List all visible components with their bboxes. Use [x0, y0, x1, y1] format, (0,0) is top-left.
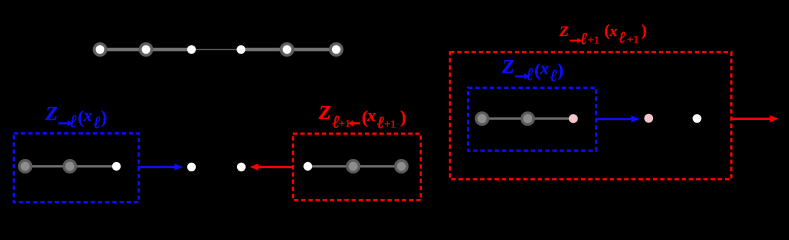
top node 5: [281, 44, 293, 56]
top chain thin wire 3-4: [192, 49, 242, 51]
label Z_{->l}(x_l) bottom-left blue: [45, 103, 108, 132]
top node 4: [237, 45, 246, 54]
left chain gray node 2: [64, 160, 76, 172]
blue arrow right fig: [597, 116, 641, 123]
top node 1: [94, 44, 106, 56]
blue dashed box (inner right): [468, 88, 596, 151]
wire mid chain 2-3: [353, 165, 401, 167]
svg-text:+1: +1: [588, 35, 600, 47]
top node 3: [187, 45, 196, 54]
top node 6: [330, 44, 342, 56]
svg-text:x: x: [366, 106, 376, 125]
svg-text:x: x: [83, 106, 93, 125]
free pink node: [644, 114, 653, 123]
red arrow right fig: [731, 115, 778, 122]
red dashed box (bottom middle): [293, 134, 421, 201]
top chain wire 5-6: [287, 48, 336, 52]
svg-text:ℓ: ℓ: [377, 113, 384, 132]
wire mid chain 1-2: [308, 165, 353, 167]
blue arrow: [138, 164, 183, 171]
right chain gray node 2: [522, 113, 534, 125]
right chain pink node: [569, 114, 578, 123]
left chain gray node 1: [19, 160, 31, 172]
wire left chain 1-2: [25, 165, 70, 167]
mid chain white node: [303, 162, 312, 171]
wire left chain 2-3: [70, 165, 117, 167]
red arrow (pointing left): [250, 164, 293, 171]
svg-text:ℓ: ℓ: [618, 30, 626, 47]
top chain wire 4-5: [241, 48, 287, 52]
svg-text:x: x: [609, 24, 618, 40]
mid chain gray node 2: [347, 160, 359, 172]
label Z_{->l+1}(x_{l+1}) top right red: [559, 23, 647, 49]
free node x_l: [187, 163, 196, 172]
svg-text:ℓ: ℓ: [70, 111, 77, 131]
free white node: [693, 114, 702, 123]
svg-text:Z: Z: [45, 103, 58, 125]
label Z_{->l}(x_l) inner blue: [501, 56, 563, 85]
wire right chain 1-2: [482, 117, 528, 119]
svg-text:(: (: [604, 23, 609, 40]
left chain white node: [112, 162, 121, 171]
mid chain gray node 3: [396, 160, 408, 172]
svg-text:+1: +1: [339, 118, 351, 130]
svg-text:Z: Z: [318, 102, 331, 124]
svg-text:+1: +1: [627, 34, 639, 46]
top chain wire 1-2: [100, 48, 146, 52]
svg-text:ℓ: ℓ: [93, 113, 100, 132]
wire right chain 2-3: [528, 117, 574, 119]
svg-text:+1: +1: [384, 118, 396, 130]
free node x_l+1: [237, 163, 246, 172]
svg-text:): ): [101, 107, 107, 128]
svg-text:): ): [400, 107, 406, 128]
red dashed box (right): [450, 52, 731, 179]
top node 2: [140, 44, 152, 56]
top chain wire 2-3: [146, 48, 192, 52]
svg-text:Z: Z: [559, 24, 569, 40]
label Z_{l+1<-}(x_{l+1}) middle red: [318, 102, 406, 132]
svg-text:ℓ: ℓ: [580, 29, 587, 48]
svg-text:): ): [642, 23, 647, 40]
blue dashed box (bottom-left): [14, 133, 139, 202]
right chain gray node 1: [476, 113, 488, 125]
